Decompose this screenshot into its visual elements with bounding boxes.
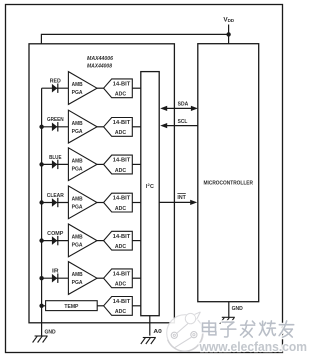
SCL wire: [163, 125, 198, 127]
wire VDD stem: [228, 25, 230, 44]
wire PGA-ADC GREEN: [97, 126, 104, 128]
I2C block: [141, 72, 159, 316]
wire PGA-ADC IR: [97, 277, 104, 279]
ADC BLUE: [104, 155, 133, 174]
svg-text:AMB: AMB: [72, 197, 83, 203]
svg-text:14-BIT: 14-BIT: [113, 234, 131, 240]
wire ADC-I2C TEMP: [132, 305, 141, 307]
wire ground bus: [41, 88, 43, 335]
op-amp PGA CLEAR: [68, 186, 97, 219]
wire GREEN input: [42, 126, 69, 128]
svg-text:SDA: SDA: [178, 102, 189, 108]
INT wire: [159, 201, 194, 203]
svg-text:AMB: AMB: [72, 235, 83, 241]
wire A0 stem: [149, 316, 151, 336]
node bus junction IR: [39, 276, 43, 280]
wire RED input: [42, 87, 69, 89]
svg-text:AMB: AMB: [72, 158, 83, 164]
wire ADC-I2C RED: [132, 87, 141, 89]
svg-text:DD: DD: [228, 18, 235, 23]
chip box MAX44006/MAX44008: [29, 44, 174, 323]
svg-text:PGA: PGA: [72, 129, 83, 135]
op-amp PGA IR: [68, 262, 97, 295]
svg-text:ADC: ADC: [115, 206, 126, 212]
op-amp PGA GREEN: [68, 110, 97, 143]
svg-text:C: C: [150, 184, 154, 190]
ADC IR: [104, 269, 133, 288]
ADC COMP: [104, 231, 133, 250]
photodiode GREEN: [52, 122, 59, 131]
node bus junction TEMP: [39, 304, 43, 308]
wire ADC-I2C CLEAR: [132, 202, 141, 204]
wire ADC-I2C COMP: [132, 240, 141, 242]
svg-text:BLUE: BLUE: [49, 155, 62, 161]
photodiode IR: [52, 274, 59, 283]
svg-text:A0: A0: [153, 329, 161, 335]
wire VDD rail to sensor: [41, 34, 228, 43]
svg-text:PGA: PGA: [72, 90, 83, 96]
svg-text:AMB: AMB: [72, 82, 83, 88]
op-amp PGA RED: [68, 72, 97, 105]
node bus junction BLUE: [39, 162, 43, 166]
svg-text:14-BIT: 14-BIT: [113, 81, 131, 87]
svg-text:GND: GND: [232, 306, 243, 312]
svg-text:14-BIT: 14-BIT: [113, 158, 131, 164]
svg-text:CLEAR: CLEAR: [47, 193, 64, 199]
node VDD junction: [226, 32, 230, 36]
svg-text:www.elecfans.com: www.elecfans.com: [199, 340, 307, 354]
svg-text:14-BIT: 14-BIT: [113, 196, 131, 202]
watermark logo disc: [167, 311, 204, 352]
svg-text:ADC: ADC: [115, 92, 126, 98]
SDA wire: [163, 107, 196, 109]
svg-text:PGA: PGA: [72, 205, 83, 211]
op-amp PGA COMP: [68, 224, 97, 257]
ground MC: [220, 317, 235, 324]
ADC CLEAR: [104, 193, 133, 212]
I2C label: [146, 182, 154, 190]
svg-text:ADC: ADC: [115, 130, 126, 136]
node bus junction COMP: [39, 238, 43, 242]
VDD label: [223, 17, 234, 24]
watermark text dianzifashaoyou: [203, 321, 294, 338]
node bus junction GREEN: [39, 125, 43, 129]
svg-text:ADC: ADC: [115, 282, 126, 288]
op-amp PGA BLUE: [68, 148, 97, 181]
wire IR input: [42, 277, 69, 279]
wire PGA-ADC BLUE: [97, 163, 104, 165]
svg-text:GREEN: GREEN: [47, 117, 64, 123]
svg-text:PGA: PGA: [72, 166, 83, 172]
ADC GREEN: [104, 118, 133, 137]
svg-text:SCL: SCL: [178, 119, 188, 125]
photodiode RED: [52, 84, 59, 93]
ground chip: [33, 336, 48, 343]
svg-text:ADC: ADC: [115, 244, 126, 250]
svg-text:PGA: PGA: [72, 280, 83, 286]
svg-text:RED: RED: [50, 79, 61, 85]
wire ADC-I2C BLUE: [132, 163, 141, 165]
wire PGA-ADC COMP: [97, 240, 104, 242]
temp sensor TEMP box: [46, 301, 98, 311]
svg-text:ADC: ADC: [115, 309, 126, 315]
wire ADC-I2C GREEN: [132, 126, 141, 128]
wire PGA-ADC CLEAR: [97, 202, 104, 204]
wire CLEAR input: [42, 202, 69, 204]
microcontroller U2 box: [198, 44, 259, 302]
photodiode BLUE: [52, 160, 59, 169]
wire ADC-I2C IR: [132, 277, 141, 279]
node bus junction CLEAR: [39, 200, 43, 204]
svg-text:14-BIT: 14-BIT: [113, 271, 131, 277]
svg-text:IR: IR: [52, 269, 59, 275]
ADC RED: [104, 79, 133, 98]
svg-text:TEMP: TEMP: [64, 304, 78, 310]
svg-text:INT: INT: [177, 195, 186, 201]
wire MC ground stem: [228, 302, 230, 318]
svg-text:ADC: ADC: [115, 168, 126, 174]
svg-text:MICROCONTROLLER: MICROCONTROLLER: [204, 180, 254, 186]
wire TEMP input: [42, 305, 46, 307]
svg-text:14-BIT: 14-BIT: [113, 120, 131, 126]
ground A0: [141, 338, 156, 345]
wire TEMP-ADC: [97, 305, 103, 307]
svg-text:MAX44008: MAX44008: [87, 64, 113, 70]
svg-text:AMB: AMB: [72, 121, 83, 127]
svg-text:14-BIT: 14-BIT: [113, 299, 131, 305]
wire PGA-ADC RED: [97, 87, 104, 89]
svg-text:GND: GND: [45, 329, 56, 335]
wire COMP input: [42, 240, 69, 242]
ADC TEMP: [104, 297, 133, 316]
wire BLUE input: [42, 163, 69, 165]
svg-text:MAX44006: MAX44006: [87, 56, 114, 62]
photodiode CLEAR: [52, 198, 59, 207]
svg-text:AMB: AMB: [72, 272, 83, 278]
photodiode COMP: [52, 236, 59, 245]
svg-text:PGA: PGA: [72, 243, 83, 249]
svg-text:COMP: COMP: [47, 231, 64, 237]
